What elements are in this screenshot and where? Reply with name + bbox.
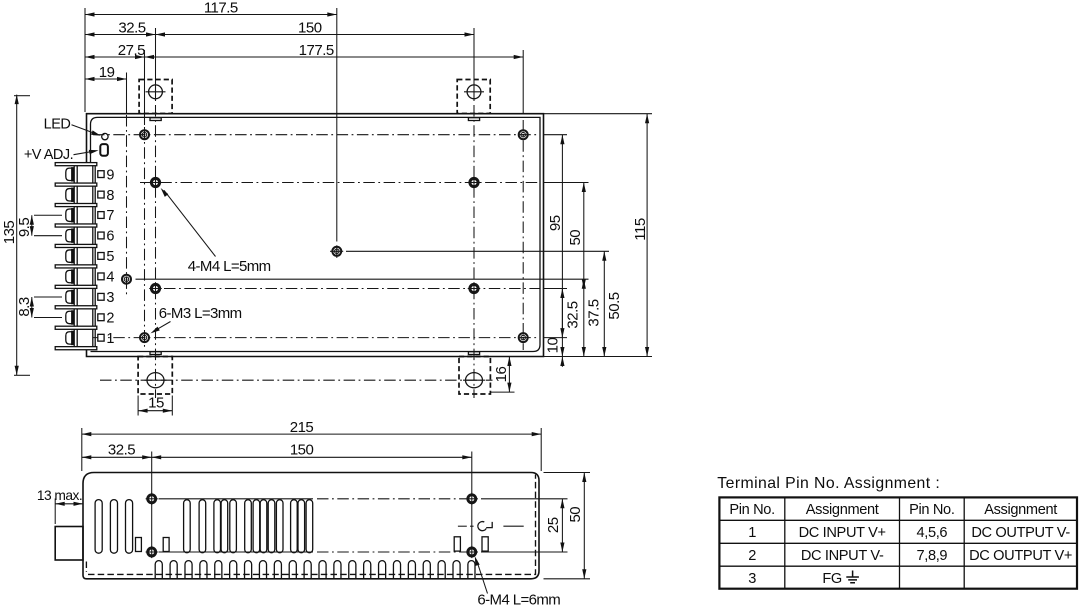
bracket bottom-left hole: [147, 373, 164, 388]
extension line M4 right column above body: [473, 28, 475, 101]
hole 6-M3 bottom-right: [519, 333, 528, 342]
svg-text:6: 6: [106, 229, 114, 245]
dim 16 extension: [491, 391, 515, 393]
dim 95 line: [561, 135, 563, 338]
bracket bottom-right hole: [466, 373, 483, 388]
dim 13 max line: [55, 503, 83, 505]
center line M3 right column: [522, 120, 524, 350]
svg-text:177.5: 177.5: [299, 42, 334, 59]
table cell texts: [729, 502, 1072, 587]
side hole 6-M4 top-right: [468, 495, 476, 503]
svg-text:50: 50: [567, 507, 584, 523]
center line M3 bottom row: [93, 337, 540, 339]
svg-text:215: 215: [290, 419, 314, 436]
center hole vertical tick: [336, 245, 338, 258]
side short slot c: [454, 537, 460, 551]
svg-text:DC INPUT V+: DC INPUT V+: [799, 525, 886, 541]
svg-text:4,5,6: 4,5,6: [916, 525, 947, 541]
dim 50 line: [583, 183, 585, 289]
svg-text:DC INPUT V-: DC INPUT V-: [801, 548, 884, 564]
dim 19 line: [85, 78, 127, 80]
svg-text:+V ADJ.: +V ADJ.: [24, 147, 73, 163]
bracket top-left hole: [149, 85, 163, 99]
mounting bracket bottom-left (dashed): [138, 357, 172, 395]
center line through bottom brackets: [100, 379, 493, 381]
side vent slot group left: [95, 500, 102, 554]
svg-text:DC OUTPUT V+: DC OUTPUT V+: [969, 548, 1072, 564]
dim 50 side line: [583, 473, 585, 579]
svg-text:3: 3: [748, 571, 756, 587]
side hole 6-M4 top-left: [148, 495, 156, 503]
top view: body inner edge lines: [91, 117, 541, 351]
bracket top-right tab: [468, 118, 479, 121]
extension line left ref: [84, 8, 86, 112]
svg-text:6-M3 L=3mm: 6-M3 L=3mm: [159, 305, 242, 322]
dim 15 line: [138, 410, 172, 412]
svg-text:2: 2: [106, 310, 114, 326]
dim 50 side extensions: [544, 472, 591, 474]
svg-text:16: 16: [493, 367, 510, 383]
side view: hidden cover edge (dashed): [86, 475, 535, 575]
svg-text:50: 50: [567, 230, 584, 246]
extension lines right side: [544, 134, 568, 136]
dim 117.5 line: [85, 14, 337, 16]
hole 4-M4 top-right: [470, 178, 478, 186]
dim 10 line: [561, 357, 563, 367]
svg-text:LED: LED: [44, 116, 71, 132]
extension line M3 right column above body: [522, 50, 524, 113]
side main vent slots: [184, 500, 313, 553]
dim 135 top extension: [14, 95, 30, 97]
dim 13 extension: [54, 499, 56, 525]
dim 32.5 line: [85, 34, 156, 36]
svg-text:Assignment: Assignment: [984, 502, 1057, 518]
top view: chassis body outline: [87, 114, 544, 357]
svg-text:1: 1: [748, 525, 756, 541]
center line mid-left column: [126, 115, 128, 297]
svg-text:8: 8: [106, 188, 114, 204]
svg-text:Terminal Pin No. Assignment :: Terminal Pin No. Assignment :: [717, 475, 940, 492]
side vertical line between left holes: [151, 504, 153, 547]
FG ground symbol: [846, 571, 859, 583]
hole 6-M3 top-right: [519, 130, 528, 139]
center line M3 top row: [93, 134, 540, 136]
side hole 6-M4 bottom-left: [148, 548, 156, 556]
dim 16 line: [508, 357, 510, 393]
bracket bottom-left tab: [150, 352, 161, 355]
side view: body outline: [83, 473, 539, 579]
mounting bracket top-left (dashed): [139, 80, 172, 114]
center line M4 left column: [155, 105, 157, 398]
center mark center hole: [330, 250, 343, 252]
center line M3 left column: [144, 127, 146, 350]
bracket top-left tab: [150, 118, 161, 121]
+V ADJ leader line: [74, 151, 96, 155]
dim 215 line: [82, 433, 541, 435]
hole 6-M3 bottom-left: [140, 333, 149, 342]
side short slot b: [163, 538, 169, 552]
svg-text:4-M4 L=5mm: 4-M4 L=5mm: [188, 258, 271, 275]
hole 4-M4 bottom-right: [470, 284, 478, 292]
extension line M4 left column above body: [155, 28, 157, 101]
svg-text:5: 5: [106, 249, 114, 265]
svg-text:95: 95: [547, 215, 564, 231]
dim 9.5 line: [31, 215, 33, 235]
svg-text:9: 9: [106, 167, 114, 183]
dim 177.5 line: [145, 56, 524, 58]
side center line top hole row: [159, 498, 314, 500]
svg-text:50.5: 50.5: [606, 292, 623, 319]
svg-text:115: 115: [632, 218, 649, 241]
dim 25 extensions: [481, 498, 568, 500]
svg-text:FG: FG: [822, 571, 842, 587]
hole 6-M3 center: [332, 247, 341, 256]
svg-text:32.5: 32.5: [108, 442, 135, 459]
hole 4-M4 top-left: [151, 178, 159, 186]
svg-text:Pin No.: Pin No.: [729, 502, 774, 518]
svg-text:7: 7: [106, 208, 114, 224]
extension line center column to hole: [336, 8, 338, 242]
dim 27.5 line: [85, 56, 145, 58]
hole 6-M3 middle-left: [122, 275, 131, 284]
leader to M4 hole: [164, 190, 216, 256]
dim 115 line: [646, 114, 648, 357]
svg-text:2: 2: [748, 548, 756, 564]
svg-text:10: 10: [544, 338, 561, 354]
mounting bracket top-right (dashed): [457, 80, 490, 114]
side short slot d: [482, 537, 488, 551]
center line M4 right column: [473, 105, 475, 398]
dim 50.5 line: [603, 251, 605, 356]
terminal block assembly: [55, 163, 97, 350]
svg-text:4: 4: [106, 270, 114, 286]
terminal pin squares and numbers: [98, 167, 115, 347]
dim 32.5 side line: [82, 456, 152, 458]
dim 32.5 right line: [561, 289, 563, 357]
svg-text:6-M4 L=6mm: 6-M4 L=6mm: [477, 592, 560, 609]
svg-text:1: 1: [106, 331, 114, 347]
center line M4 top row: [140, 182, 540, 184]
svg-text:3: 3: [106, 290, 114, 306]
dim 8.3 line: [31, 297, 33, 317]
svg-text:150: 150: [298, 20, 322, 37]
extension line 19 column above body: [126, 73, 128, 114]
+V ADJ potentiometer: [100, 144, 108, 156]
dim 15 extensions: [137, 396, 139, 416]
svg-text:25: 25: [545, 517, 562, 533]
LED leader line: [72, 125, 98, 135]
LED indicator circle: [102, 133, 108, 139]
bracket top-right hole: [467, 85, 481, 99]
svg-text:Pin No.: Pin No.: [909, 502, 954, 518]
center line M4 bottom row: [164, 288, 540, 290]
table grid: [719, 497, 1077, 588]
dim 135 line: [16, 95, 18, 376]
leader to M3 hole: [155, 322, 171, 331]
side short slot a: [136, 538, 142, 552]
side center line bottom hole row: [159, 551, 314, 553]
side vertical line between right holes: [471, 504, 473, 547]
centre line symbol: [478, 522, 492, 531]
svg-text:13 max.: 13 max.: [37, 488, 82, 503]
svg-text:32.5: 32.5: [565, 301, 582, 328]
side hole 6-M4 bottom-right: [468, 548, 476, 556]
dim 150 line (top): [156, 34, 475, 36]
svg-text:Assignment: Assignment: [806, 502, 879, 518]
side view: terminal block side: [55, 527, 83, 561]
svg-text:8.3: 8.3: [16, 297, 33, 317]
svg-text:DC OUTPUT V-: DC OUTPUT V-: [971, 525, 1070, 541]
svg-text:7,8,9: 7,8,9: [916, 548, 947, 564]
dim 150 side line: [152, 456, 472, 458]
svg-text:27.5: 27.5: [118, 42, 145, 59]
leader to side hole: [477, 560, 488, 594]
dim 25 line: [561, 499, 563, 552]
svg-text:32.5: 32.5: [118, 20, 145, 37]
hole 4-M4 bottom-left: [151, 284, 159, 292]
extension line M3 left column above body: [144, 50, 146, 125]
svg-text:37.5: 37.5: [586, 299, 603, 326]
dim 37.5 line: [583, 279, 585, 356]
bracket bottom-right tab: [468, 352, 479, 355]
mounting bracket bottom-right (dashed): [459, 357, 490, 395]
extension lines side top: [81, 428, 83, 471]
svg-text:19: 19: [99, 64, 115, 81]
svg-text:150: 150: [290, 442, 314, 459]
svg-text:117.5: 117.5: [204, 0, 238, 16]
side bottom vent arches: [155, 561, 475, 579]
svg-text:9.5: 9.5: [16, 218, 33, 238]
hole 6-M3 top-left: [140, 130, 149, 139]
svg-text:15: 15: [148, 395, 164, 412]
dim 135 bottom extension: [14, 374, 30, 376]
